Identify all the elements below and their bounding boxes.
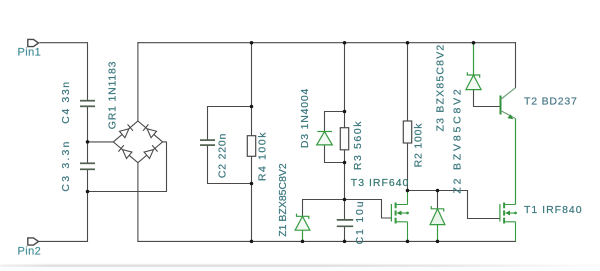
svg-text:Pin2: Pin2 [18,246,42,258]
svg-text:Z3 BZX85C8V2: Z3 BZX85C8V2 [435,44,447,132]
svg-text:T3 IRF640: T3 IRF640 [351,177,410,189]
svg-text:T2 BD237: T2 BD237 [524,96,578,108]
svg-text:T1 IRF840: T1 IRF840 [524,204,583,216]
svg-text:Z2 BZV85C8V2: Z2 BZV85C8V2 [452,86,464,193]
svg-text:Pin1: Pin1 [18,47,42,59]
svg-text:D3 1N4004: D3 1N4004 [299,88,311,148]
svg-text:Z1 BZX85C8V2: Z1 BZX85C8V2 [277,163,289,237]
svg-text:C3 3.3n: C3 3.3n [60,139,72,191]
svg-text:GR1 1N1183: GR1 1N1183 [107,61,119,130]
svg-text:R3 560k: R3 560k [352,120,364,170]
svg-text:C2 220n: C2 220n [217,133,229,178]
svg-text:R4 100k: R4 100k [257,131,269,181]
svg-text:R2 100k: R2 100k [412,123,424,168]
svg-text:C1 10u: C1 10u [354,200,366,245]
svg-text:C4 33n: C4 33n [60,80,72,123]
